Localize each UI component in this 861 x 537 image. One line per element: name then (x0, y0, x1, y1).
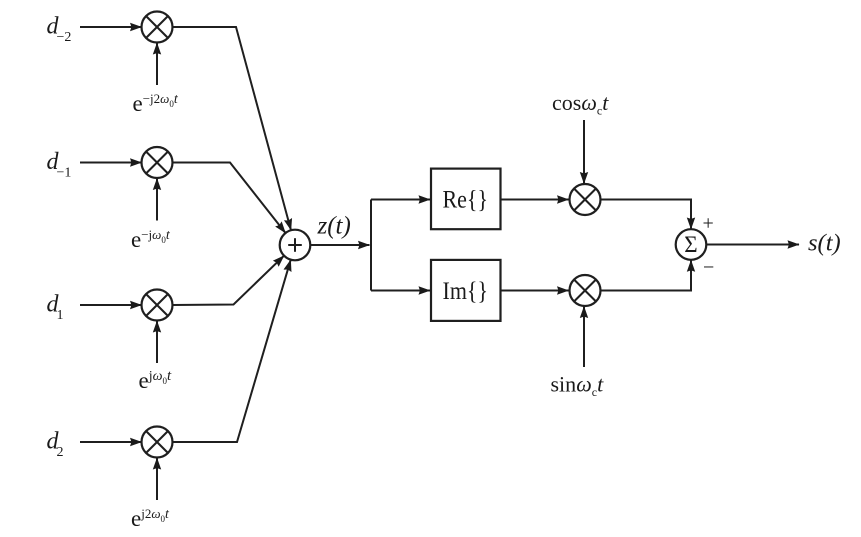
svg-text:−: − (703, 257, 714, 279)
svg-text:ej2ω0t: ej2ω0t (131, 506, 170, 531)
svg-text:Im{}: Im{} (443, 278, 489, 305)
svg-text:z(t): z(t) (317, 213, 351, 240)
svg-text:Re{}: Re{} (443, 186, 489, 213)
svg-text:e−jω0t: e−jω0t (131, 227, 171, 252)
svg-text:d2: d2 (47, 428, 64, 460)
svg-text:e−j2ω0t: e−j2ω0t (133, 91, 179, 116)
svg-text:d−1: d−1 (47, 149, 72, 181)
svg-text:sinωct: sinωct (551, 372, 605, 400)
svg-text:+: + (703, 213, 714, 235)
svg-text:d1: d1 (47, 291, 64, 323)
svg-text:d−2: d−2 (47, 13, 72, 45)
svg-text:ejω0t: ejω0t (139, 368, 173, 393)
svg-text:s(t): s(t) (808, 230, 841, 257)
svg-text:Σ: Σ (684, 232, 697, 257)
svg-text:cosωct: cosωct (552, 90, 609, 118)
